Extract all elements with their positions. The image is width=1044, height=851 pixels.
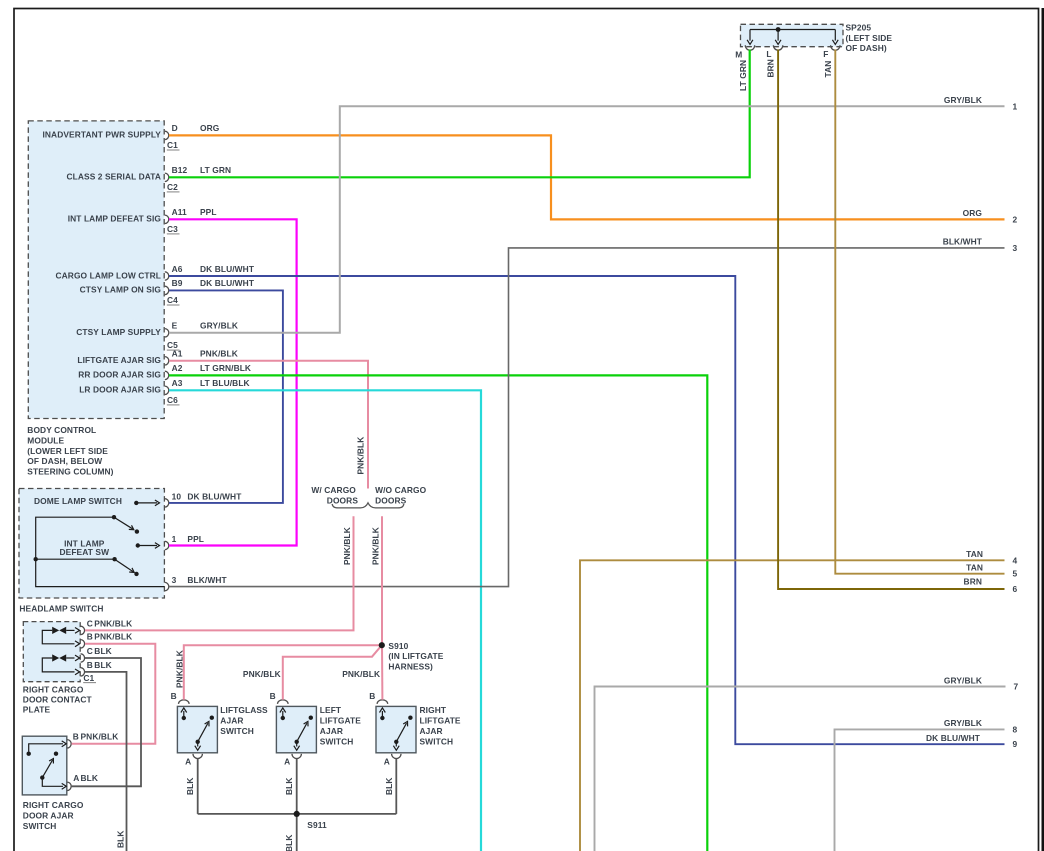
ajar switch right contact [54, 752, 58, 756]
svg-text:C1: C1 [167, 140, 178, 150]
contact plate lower pin B loop wire [42, 658, 74, 672]
svg-text:PNK/BLK: PNK/BLK [174, 650, 184, 688]
svg-text:GRY/BLK: GRY/BLK [944, 718, 982, 728]
int lamp switch pivot contact [112, 557, 116, 561]
svg-text:PNK/BLK: PNK/BLK [243, 669, 281, 679]
right liftgate ajar switch box [376, 706, 416, 752]
ajar switch pin B entry wire [29, 744, 63, 752]
svg-text:ORG: ORG [963, 208, 982, 218]
svg-text:4: 4 [1013, 555, 1018, 565]
svg-text:6: 6 [1013, 584, 1018, 594]
BCM pin A11 INT LAMP DEFEAT SIG [165, 215, 169, 223]
svg-text:BODY CONTROLMODULE(LOWER LEFT: BODY CONTROLMODULE(LOWER LEFT SIDEOF DAS… [27, 425, 113, 477]
wire BLK contact plate pin C to ajar switch pin A [72, 658, 141, 786]
svg-text:CTSY LAMP ON SIG: CTSY LAMP ON SIG [80, 285, 161, 295]
svg-text:RIGHTLIFTGATEAJARSWITCH: RIGHTLIFTGATEAJARSWITCH [420, 705, 461, 747]
svg-text:BLK: BLK [185, 777, 195, 795]
wire BLK left liftgate pin A to S911 [296, 759, 298, 814]
svg-text:F: F [823, 49, 828, 59]
svg-text:TAN: TAN [966, 549, 983, 559]
wire PNK/BLK S910 to right liftgate pin B [381, 645, 383, 700]
svg-text:PNK/BLK: PNK/BLK [370, 527, 380, 565]
svg-text:D: D [172, 123, 178, 133]
SP205 pin L drop arrow [777, 30, 779, 41]
svg-text:PPL: PPL [200, 207, 217, 217]
wire DK BLU/WHT from BCM A6 to terminal 9 [169, 276, 1005, 744]
BCM pin D INADVERTANT PWR SUPPLY [165, 131, 169, 139]
svg-text:LT GRN: LT GRN [738, 60, 748, 91]
left liftgate ajar switch lever [297, 723, 307, 742]
wire DK BLU/WHT from BCM B9 to headlamp pin 10 [169, 290, 283, 503]
right liftgate ajar switch pin B entry arrow [381, 711, 383, 718]
ajar switch pin B arc [67, 740, 71, 748]
int lamp switch lower contact [134, 572, 138, 576]
liftglass ajar switch box [177, 706, 217, 752]
svg-text:C4: C4 [167, 295, 178, 305]
svg-text:B12: B12 [172, 165, 188, 175]
BCM pin A3 LR DOOR AJAR SIG [165, 386, 169, 394]
svg-text:GRY/BLK: GRY/BLK [944, 675, 982, 685]
right liftgate ajar switch lever [396, 723, 406, 742]
wire LT GRN from BCM B12 to SP205 M [169, 50, 750, 178]
svg-text:DK BLU/WHT: DK BLU/WHT [200, 278, 255, 288]
svg-text:LR DOOR AJAR SIG: LR DOOR AJAR SIG [79, 385, 161, 395]
liftglass ajar switch pin B arc [179, 700, 190, 704]
right liftgate ajar switch pin A exit arrow [395, 742, 397, 747]
BCM pin B12 CLASS 2 SERIAL DATA [165, 173, 169, 181]
svg-text:1: 1 [1013, 101, 1018, 111]
right cargo door ajar switch box [22, 736, 67, 795]
SP205 pin F socket arc [831, 45, 840, 50]
right liftgate ajar switch pin A arc [392, 754, 401, 759]
svg-text:CARGO LAMP LOW CTRL: CARGO LAMP LOW CTRL [56, 270, 162, 280]
SP205 pin M drop arrow [749, 30, 751, 41]
svg-text:BLK/WHT: BLK/WHT [187, 575, 227, 585]
svg-text:PNK/BLK: PNK/BLK [200, 349, 238, 359]
dome switch lever [114, 517, 133, 529]
SP205 pin M socket arc [745, 45, 754, 50]
splice pack SP205 dashed box [741, 24, 844, 46]
svg-text:W/ CARGO: W/ CARGO [311, 485, 356, 495]
wire GRY/BLK off-page bottom to terminal 8 [835, 729, 1005, 851]
svg-text:10: 10 [172, 491, 182, 501]
wire BLK S911 off-page bottom [296, 814, 298, 851]
dome switch lower contact [135, 529, 139, 533]
wire GRY/BLK off-page bottom to terminal 7 [595, 687, 1006, 851]
svg-text:BLK: BLK [116, 830, 126, 848]
svg-text:C1: C1 [83, 673, 94, 683]
svg-text:A11: A11 [172, 207, 187, 217]
left liftgate ajar switch right contact [309, 716, 313, 720]
wire PNK/BLK contact plate pin B to ajar switch pin B [72, 644, 156, 744]
headlamp switch SW1 dashed box [19, 489, 164, 599]
wire PNK/BLK from BCM A1 to cargo-door option brace [169, 361, 368, 489]
wire BLK right liftgate pin A to S911 [395, 759, 397, 814]
svg-text:RIGHT CARGODOOR AJARSWITCH: RIGHT CARGODOOR AJARSWITCH [23, 800, 84, 831]
wire BRN from SP205 L to terminal 6 [778, 50, 1004, 590]
right cargo door contact plate dashed box [23, 622, 80, 682]
svg-text:A: A [73, 773, 79, 783]
wire PNK/BLK w/ cargo doors branch to contact plate pin C [85, 516, 354, 630]
svg-text:S911: S911 [307, 820, 327, 830]
svg-text:DK BLU/WHT: DK BLU/WHT [926, 733, 981, 743]
svg-text:W/O CARGO: W/O CARGO [375, 485, 427, 495]
wire ORG from BCM D to terminal 2 [169, 135, 1005, 219]
svg-text:RIGHT CARGODOOR CONTACTPLATE: RIGHT CARGODOOR CONTACTPLATE [23, 684, 93, 714]
wire PNK/BLK w/o cargo doors branch to S910 [381, 516, 383, 645]
svg-text:A: A [384, 757, 390, 767]
dome switch wire to pin 10 [136, 502, 157, 504]
contact plate upper contact symbol [52, 627, 59, 634]
left liftgate ajar switch pin B arc [278, 700, 289, 704]
liftglass ajar switch pin A exit arrow [197, 742, 199, 747]
wire LT BLU/BLK from BCM A3 off-page bottom [169, 390, 481, 851]
svg-text:RR DOOR AJAR SIG: RR DOOR AJAR SIG [78, 370, 161, 380]
left liftgate ajar switch pin A exit arrow [296, 742, 298, 747]
svg-text:A2: A2 [172, 363, 183, 373]
svg-text:PNK/BLK: PNK/BLK [356, 437, 366, 475]
svg-text:A: A [185, 757, 191, 767]
wire BLK S911 bus [198, 813, 397, 815]
body control module U1 dashed box [28, 121, 164, 419]
liftglass ajar switch pivot contact [196, 740, 200, 744]
svg-text:INT LAMPDEFEAT SW: INT LAMPDEFEAT SW [59, 539, 109, 558]
svg-text:C: C [87, 646, 93, 656]
liftglass ajar switch lever [198, 723, 208, 742]
SP205 pin F drop arrow [834, 30, 836, 41]
BCM pin A6 CARGO LAMP LOW CTRL [165, 272, 169, 280]
svg-text:ORG: ORG [200, 123, 219, 133]
svg-text:E: E [172, 321, 178, 331]
headlamp switch internal bus wire [36, 517, 165, 586]
svg-text:1: 1 [172, 534, 177, 544]
BCM pin A1 LIFTGATE AJAR SIG [165, 357, 169, 365]
left liftgate ajar switch pivot contact [295, 740, 299, 744]
contact plate pin C arc [81, 626, 85, 634]
svg-text:BLK: BLK [94, 646, 112, 656]
svg-text:PNK/BLK: PNK/BLK [342, 527, 352, 565]
svg-text:LT BLU/BLK: LT BLU/BLK [200, 378, 250, 388]
wire BLK contact plate pin B off-page bottom [85, 672, 127, 851]
contact plate pin B arc [81, 668, 85, 676]
svg-text:INADVERTANT PWR SUPPLY: INADVERTANT PWR SUPPLY [42, 130, 161, 140]
svg-text:BLK: BLK [81, 773, 99, 783]
splice node S911 [294, 811, 300, 817]
svg-text:TAN: TAN [823, 61, 833, 78]
liftglass ajar switch pin A arc [193, 754, 202, 759]
wire TAN off-page bottom to terminal 4 [580, 560, 1005, 851]
wire BLK/WHT from headlamp pin 3 to terminal 3 [169, 248, 1005, 587]
svg-text:BLK: BLK [284, 777, 294, 795]
svg-text:LEFTLIFTGATEAJARSWITCH: LEFTLIFTGATEAJARSWITCH [320, 705, 361, 747]
svg-text:BLK: BLK [284, 834, 294, 851]
svg-text:B: B [87, 660, 93, 670]
SP205 junction node [776, 27, 781, 32]
contact plate upper pin C wire [66, 629, 74, 631]
right page-edge line [1042, 8, 1044, 851]
svg-text:S910(IN LIFTGATEHARNESS): S910(IN LIFTGATEHARNESS) [388, 641, 443, 672]
svg-text:DOORS: DOORS [327, 495, 359, 505]
ajar switch pin A arc [67, 782, 71, 790]
svg-text:DOORS: DOORS [375, 495, 407, 505]
dome switch pivot contact [112, 515, 116, 519]
svg-text:GRY/BLK: GRY/BLK [200, 321, 238, 331]
svg-text:A3: A3 [172, 378, 183, 388]
wire BLK liftglass pin A to S911 [197, 759, 199, 814]
option alternatives brace [332, 503, 404, 508]
svg-text:HEADLAMP SWITCH: HEADLAMP SWITCH [19, 604, 103, 614]
headlamp switch pin 3 [165, 582, 169, 590]
svg-text:SP205(LEFT SIDEOF DASH): SP205(LEFT SIDEOF DASH) [846, 23, 893, 54]
headlamp switch pin 10 [165, 499, 169, 507]
svg-text:A: A [284, 757, 290, 767]
svg-text:BLK: BLK [384, 777, 394, 795]
wire PNK/BLK liftglass pin B to S910 [184, 645, 382, 700]
svg-text:C5: C5 [167, 340, 178, 350]
SP205 internal bus wire [750, 29, 835, 31]
right liftgate ajar switch left contact [380, 716, 384, 720]
svg-text:9: 9 [1013, 739, 1018, 749]
SP205 pin L socket arc [773, 45, 782, 50]
svg-text:PNK/BLK: PNK/BLK [81, 732, 119, 742]
wire LT GRN/BLK from BCM A2 off-page bottom [169, 375, 707, 851]
left liftgate ajar switch left contact [281, 716, 285, 720]
svg-text:LIFTGATE AJAR SIG: LIFTGATE AJAR SIG [77, 355, 161, 365]
svg-text:7: 7 [1014, 682, 1019, 692]
svg-text:DK BLU/WHT: DK BLU/WHT [200, 264, 255, 274]
contact plate lower pin C wire [66, 657, 74, 659]
right liftgate ajar switch pivot contact [394, 740, 398, 744]
wire PNK/BLK S910 to left liftgate pin B [283, 645, 382, 700]
BCM pin E CTSY LAMP SUPPLY [165, 329, 169, 337]
wire TAN from SP205 F to terminal 5 [835, 50, 1004, 574]
contact plate pin C arc [81, 654, 85, 662]
svg-text:PNK/BLK: PNK/BLK [94, 632, 132, 642]
wire PPL from BCM A11 to headlamp pin 1 [169, 219, 297, 545]
svg-text:A6: A6 [172, 264, 183, 274]
ajar switch pin A exit wire [42, 778, 63, 787]
svg-text:2: 2 [1013, 214, 1018, 224]
svg-text:L: L [766, 49, 771, 59]
svg-text:B9: B9 [172, 278, 183, 288]
svg-text:PPL: PPL [187, 534, 204, 544]
right liftgate ajar switch pin B arc [377, 700, 388, 704]
int lamp defeat row wire [36, 558, 113, 560]
svg-text:LT GRN/BLK: LT GRN/BLK [200, 363, 251, 373]
left liftgate ajar switch box [276, 706, 316, 752]
svg-text:C3: C3 [167, 224, 178, 234]
BCM pin A2 RR DOOR AJAR SIG [165, 371, 169, 379]
svg-text:GRY/BLK: GRY/BLK [944, 95, 982, 105]
svg-text:PNK/BLK: PNK/BLK [342, 669, 380, 679]
dome switch upper contact [134, 501, 138, 505]
ajar switch left contact [27, 752, 31, 756]
svg-text:B: B [87, 632, 93, 642]
svg-text:3: 3 [1013, 243, 1018, 253]
svg-text:TAN: TAN [966, 563, 983, 573]
svg-text:B: B [73, 732, 79, 742]
svg-text:8: 8 [1013, 724, 1018, 734]
left liftgate ajar switch pin B entry arrow [282, 711, 284, 718]
svg-text:5: 5 [1013, 569, 1018, 579]
headlamp switch pin 1 [165, 541, 169, 549]
svg-text:BLK/WHT: BLK/WHT [943, 237, 983, 247]
svg-text:BRN: BRN [766, 59, 776, 77]
splice node S910 [379, 642, 385, 648]
svg-text:CTSY LAMP SUPPLY: CTSY LAMP SUPPLY [76, 327, 161, 337]
int lamp switch lever [115, 559, 133, 571]
svg-text:LT GRN: LT GRN [200, 165, 231, 175]
svg-text:INT LAMP DEFEAT SIG: INT LAMP DEFEAT SIG [68, 214, 161, 224]
svg-text:B: B [171, 691, 177, 701]
svg-text:LIFTGLASSAJARSWITCH: LIFTGLASSAJARSWITCH [220, 705, 268, 736]
BCM pin B9 CTSY LAMP ON SIG [165, 286, 169, 294]
svg-text:DOME LAMP SWITCH: DOME LAMP SWITCH [34, 496, 122, 506]
svg-text:C2: C2 [167, 182, 178, 192]
svg-text:C: C [87, 618, 93, 628]
svg-text:M: M [735, 50, 742, 60]
liftglass ajar switch left contact [182, 716, 186, 720]
headlamp bus junction node [34, 557, 38, 561]
svg-text:CLASS 2 SERIAL DATA: CLASS 2 SERIAL DATA [67, 172, 162, 182]
svg-text:B: B [369, 691, 375, 701]
ajar switch lever [42, 760, 52, 778]
svg-text:DK BLU/WHT: DK BLU/WHT [187, 491, 242, 501]
left liftgate ajar switch pin A arc [292, 754, 301, 759]
contact plate upper pin B loop wire [42, 630, 74, 643]
ajar switch pivot contact [40, 775, 44, 779]
int lamp wire to pin 1 [138, 545, 157, 547]
svg-text:BLK: BLK [94, 660, 112, 670]
contact plate lower contact symbol [52, 654, 59, 661]
int lamp switch upper contact [136, 543, 140, 547]
svg-text:C6: C6 [167, 395, 178, 405]
contact plate pin B arc [81, 640, 85, 648]
wire GRY/BLK from BCM E to terminal 1 [169, 106, 1005, 332]
svg-text:B: B [270, 691, 276, 701]
liftglass ajar switch right contact [210, 716, 214, 720]
svg-text:3: 3 [172, 575, 177, 585]
liftglass ajar switch pin B entry arrow [183, 711, 185, 718]
svg-text:BRN: BRN [964, 576, 982, 586]
svg-text:PNK/BLK: PNK/BLK [94, 618, 132, 628]
right liftgate ajar switch right contact [408, 716, 412, 720]
